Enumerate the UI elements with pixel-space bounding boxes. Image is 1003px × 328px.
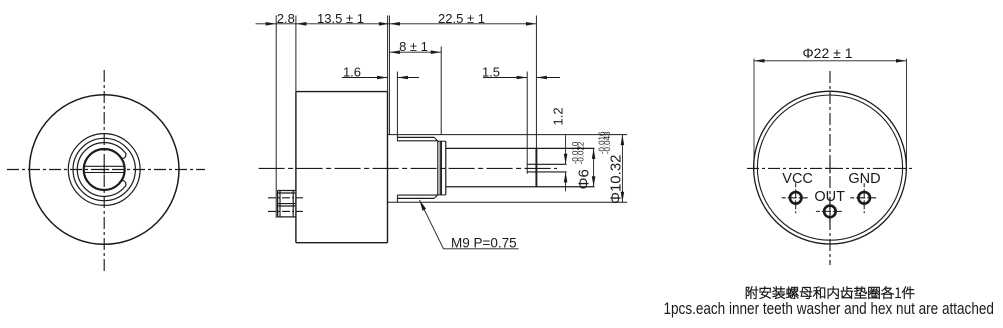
- side view terminals: [278, 190, 296, 217]
- front view bushing circle: [68, 134, 140, 206]
- front view shaft circle: [84, 149, 125, 190]
- dimension 1.6: [342, 65, 419, 80]
- dimension 22.5±1: [389, 11, 536, 26]
- side view shaft slot lines: [527, 164, 567, 172]
- side view body rectangle: [296, 92, 388, 243]
- side view boss right face: [396, 135, 398, 203]
- side view boss bottom extension line: [388, 201, 628, 203]
- extension line terminal left: [275, 16, 277, 219]
- side view boss top extension line: [388, 134, 628, 136]
- svg-text:1.6: 1.6: [343, 65, 361, 80]
- svg-text:M9 P=0.75: M9 P=0.75: [451, 235, 517, 250]
- svg-text:2.8: 2.8: [277, 11, 295, 26]
- dimension 1.2: [551, 107, 568, 191]
- dimension Φ10.32 with tolerance: [597, 131, 624, 204]
- svg-text:1pcs.each inner teeth washer a: 1pcs.each inner teeth washer and hex nut…: [664, 299, 994, 318]
- front view vertical centerline: [103, 70, 105, 271]
- svg-text:-0.043: -0.043: [603, 131, 612, 154]
- note Chinese: hex nut and inner teeth washer attached: [746, 286, 914, 298]
- label GND: [848, 171, 880, 187]
- svg-text:13.5 ± 1: 13.5 ± 1: [317, 11, 364, 26]
- rear view center cross: [825, 163, 835, 174]
- side view horizontal centerline: [258, 167, 557, 169]
- terminal pad OUT: [816, 197, 844, 227]
- extension line boss right: [396, 72, 398, 135]
- svg-text:Φ22 ± 1: Φ22 ± 1: [803, 45, 853, 61]
- label VCC: [782, 171, 813, 187]
- dimension 8±1: [389, 39, 441, 54]
- dimension 13.5±1: [296, 11, 390, 26]
- front view shaft slot: [84, 166, 125, 172]
- front view horizontal centerline: [7, 169, 205, 171]
- svg-text:VCC: VCC: [782, 171, 813, 187]
- side view shaft outline: [446, 148, 595, 186]
- svg-text:GND: GND: [848, 171, 880, 187]
- svg-text:8 ± 1: 8 ± 1: [399, 39, 428, 54]
- terminal pad VCC: [782, 183, 810, 213]
- svg-text:Φ10.32: Φ10.32: [608, 154, 625, 204]
- terminal pad GND: [850, 183, 878, 213]
- extension line body right: [388, 16, 390, 135]
- front view thread circle: [73, 138, 135, 200]
- side view collar: [438, 141, 446, 195]
- dimension 2.8: [256, 11, 296, 26]
- note English translation: [664, 299, 994, 318]
- extension line slot depth: [526, 72, 528, 174]
- svg-text:22.5 ± 1: 22.5 ± 1: [438, 11, 485, 26]
- side view terminal centerlines: [268, 198, 303, 212]
- rear view inner circle: [757, 95, 902, 240]
- front view body outline circle: [29, 95, 179, 245]
- dimension 1.5: [482, 65, 560, 80]
- label OUT: [814, 189, 845, 205]
- rear view horizontal centerline: [747, 167, 913, 169]
- extension line thread end: [440, 47, 442, 135]
- front view center cross: [99, 165, 109, 175]
- svg-text:1.5: 1.5: [482, 65, 500, 80]
- extension line body left: [295, 16, 297, 92]
- svg-text:Φ6: Φ6: [576, 169, 593, 189]
- svg-text:1.2: 1.2: [551, 107, 566, 125]
- rear view vertical centerline: [829, 71, 831, 265]
- rear view outer circle: [754, 91, 907, 244]
- label M9 P=0.75 leader: [420, 200, 519, 250]
- side view thread M9: [397, 137, 437, 198]
- dimension Φ6 with tolerance: [571, 141, 596, 189]
- svg-text:OUT: OUT: [814, 189, 845, 205]
- svg-text:-0.022: -0.022: [577, 141, 586, 164]
- front view C-clip arc: [77, 143, 126, 197]
- extension line shaft end: [535, 16, 537, 149]
- dimension Φ22±1: [754, 45, 907, 171]
